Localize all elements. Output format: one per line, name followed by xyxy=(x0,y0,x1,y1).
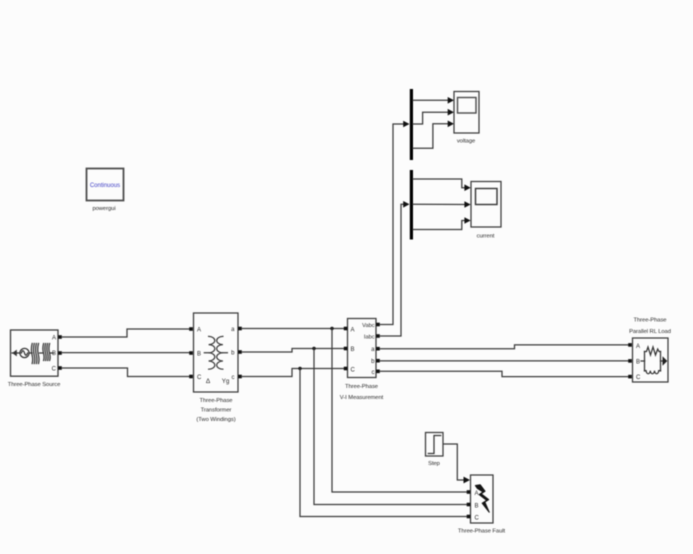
port square xfmr c xyxy=(238,375,242,379)
port square meas C xyxy=(344,367,348,371)
wire demux2 out3 to current scope xyxy=(413,221,468,230)
block Three-Phase Source xyxy=(11,330,59,376)
svg-text:c: c xyxy=(372,370,375,376)
svg-text:C: C xyxy=(351,368,356,374)
svg-text:Step: Step xyxy=(428,461,440,467)
wire demux2 out1 to current scope xyxy=(413,179,468,188)
block Scope voltage xyxy=(454,92,479,134)
svg-text:Three-Phase Source: Three-Phase Source xyxy=(8,382,61,388)
transformer winding left xyxy=(209,336,215,369)
wire tap c down to fault C xyxy=(300,369,466,517)
svg-text:B: B xyxy=(351,347,355,353)
arrowhead scope voltage in1 xyxy=(448,97,454,104)
port square load A xyxy=(628,343,632,347)
svg-text:B: B xyxy=(52,351,56,357)
junction node c-fault xyxy=(298,367,301,370)
port square source A xyxy=(58,335,62,339)
svg-text:C: C xyxy=(197,375,202,381)
svg-text:Yg: Yg xyxy=(222,378,230,385)
svg-text:V-I Measurement: V-I Measurement xyxy=(340,395,384,401)
svg-text:b: b xyxy=(231,351,235,357)
demux Demux2 (current) xyxy=(410,170,413,240)
port square source B xyxy=(58,351,62,355)
port square load B xyxy=(628,359,632,363)
arrowhead demux1 input xyxy=(403,121,409,128)
label Three-Phase V-I Measurement xyxy=(340,384,384,401)
wire source A to transformer A xyxy=(62,329,190,337)
svg-text:Continuous: Continuous xyxy=(90,183,120,189)
svg-text:Parallel RL Load: Parallel RL Load xyxy=(629,329,671,335)
arrowhead scope current in2 xyxy=(464,201,470,208)
svg-text:a: a xyxy=(231,327,235,333)
port square fault A xyxy=(467,490,471,494)
arrowhead scope current in1 xyxy=(464,184,470,191)
wire demux1 out2 to voltage scope xyxy=(413,112,452,124)
block Step xyxy=(426,433,444,457)
arrowhead scope voltage in3 xyxy=(448,121,454,128)
svg-text:B: B xyxy=(197,352,201,358)
svg-text:B: B xyxy=(475,503,479,509)
wire Vabc up to demux1 xyxy=(380,124,408,325)
svg-text:A: A xyxy=(475,491,479,497)
wire Iabc up to demux2 xyxy=(380,204,408,336)
svg-text:c: c xyxy=(232,375,235,381)
wire source B to transformer B xyxy=(62,352,190,354)
svg-text:Three-Phase: Three-Phase xyxy=(200,398,233,404)
port square xfmr a xyxy=(238,327,242,331)
svg-text:powergui: powergui xyxy=(92,206,115,212)
arrowhead scope current in3 xyxy=(464,217,470,224)
svg-text:voltage: voltage xyxy=(457,138,475,144)
svg-text:a: a xyxy=(371,347,375,353)
port square meas Vabc xyxy=(376,323,380,327)
label Three-Phase Transformer (Two Windings) xyxy=(196,398,235,423)
svg-text:current: current xyxy=(477,234,495,240)
port square xfmr B xyxy=(189,351,193,355)
port square source C xyxy=(58,366,62,370)
demux Demux1 (voltage) xyxy=(410,89,413,160)
block Three-Phase Fault xyxy=(471,475,494,523)
label Three-Phase Parallel RL Load xyxy=(629,318,671,335)
svg-text:Transformer: Transformer xyxy=(201,408,232,414)
svg-text:A: A xyxy=(197,328,201,334)
port square meas b xyxy=(376,359,380,363)
port square xfmr b xyxy=(238,350,242,354)
port square fault B xyxy=(467,503,471,507)
block powergui xyxy=(87,169,124,201)
wire source C to transformer C xyxy=(62,368,190,377)
transformer winding right xyxy=(217,336,223,369)
port square load C xyxy=(628,375,632,379)
wire transformer b to measurement B xyxy=(242,349,345,353)
wire step to fault control xyxy=(444,444,468,480)
wire measurement a to load A xyxy=(380,345,628,349)
svg-text:C: C xyxy=(52,367,57,373)
port square meas Iabc xyxy=(376,334,380,338)
wire demux1 out3 to voltage scope xyxy=(413,124,452,148)
arrowhead scope voltage in2 xyxy=(448,109,454,116)
port square xfmr A xyxy=(189,327,193,331)
wire tap b down to fault B xyxy=(314,349,466,505)
wire transformer a to measurement A xyxy=(242,328,345,330)
svg-text:Δ: Δ xyxy=(206,378,211,385)
svg-text:Three-Phase Fault: Three-Phase Fault xyxy=(458,529,506,535)
junction node b-fault xyxy=(312,347,315,350)
port square meas c xyxy=(376,370,380,374)
svg-text:A: A xyxy=(351,327,355,333)
port square fault C xyxy=(467,515,471,519)
wire transformer c to measurement C xyxy=(242,369,345,377)
wire demux1 out1 to voltage scope xyxy=(413,99,452,101)
block Three-Phase V-I Measurement xyxy=(348,319,377,378)
svg-text:A: A xyxy=(636,344,640,350)
svg-text:A: A xyxy=(52,336,56,342)
transformer leads xyxy=(204,352,227,354)
svg-text:b: b xyxy=(371,359,375,365)
wire measurement b to load B xyxy=(380,360,628,362)
block Three-Phase Parallel RL Load xyxy=(633,338,669,382)
arrowhead fault control input xyxy=(464,477,471,484)
port square meas A xyxy=(344,327,348,331)
svg-text:C: C xyxy=(636,375,641,381)
wire measurement c to load C xyxy=(380,371,628,376)
svg-text:(Two Windings): (Two Windings) xyxy=(196,417,235,423)
svg-text:Vabc: Vabc xyxy=(362,323,375,329)
source icon: arrow, AC circle, coils xyxy=(12,344,54,364)
load icon: parallel R and L with arrow xyxy=(641,347,667,374)
port square meas a xyxy=(376,347,380,351)
svg-text:C: C xyxy=(475,515,480,521)
wire demux2 out2 to current scope xyxy=(413,203,468,205)
svg-text:Three-Phase: Three-Phase xyxy=(345,384,378,390)
junction node a-fault xyxy=(330,327,333,330)
svg-text:Iabc: Iabc xyxy=(364,334,375,340)
port square meas B xyxy=(344,347,348,351)
fault lightning bolt xyxy=(475,485,489,512)
block Three-Phase Transformer xyxy=(194,313,239,392)
port square xfmr C xyxy=(189,375,193,379)
svg-text:B: B xyxy=(636,360,640,366)
wire tap a down to fault A xyxy=(332,329,466,493)
block Scope current xyxy=(471,182,501,228)
arrowhead demux2 input xyxy=(403,201,409,208)
svg-text:Three-Phase: Three-Phase xyxy=(634,318,667,324)
